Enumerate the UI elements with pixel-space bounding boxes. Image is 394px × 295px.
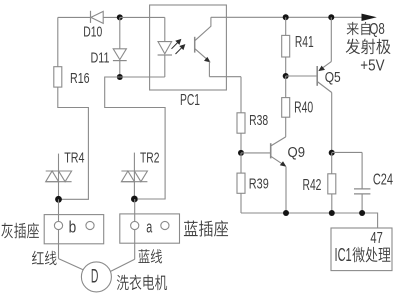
resistor R42	[328, 174, 336, 194]
svg-text:D11: D11	[91, 50, 110, 66]
node B junction (D11 cathode / PC1 LED cathode)	[117, 74, 123, 80]
wire Q5 emitter to node D	[330, 17, 332, 61]
wire node G to R39	[240, 153, 242, 173]
transistor Q5 (PNP)	[317, 62, 332, 93]
svg-text:R39: R39	[249, 175, 269, 192]
wire node A to PC1 LED anode	[120, 16, 165, 18]
svg-text:R38: R38	[249, 112, 268, 129]
svg-text:47: 47	[370, 230, 382, 247]
svg-text:D: D	[91, 267, 99, 288]
node A junction (top of D11)	[117, 14, 123, 20]
junction Q9 emitter on rail	[283, 210, 289, 216]
wire left drop to R16	[57, 17, 59, 66]
svg-text:TR4: TR4	[64, 150, 84, 166]
label 来自Q8	[347, 22, 359, 35]
svg-text:R16: R16	[70, 70, 90, 87]
PC1 phototransistor base bar	[194, 37, 196, 53]
wire node B to TR2 bottom (gate path)	[105, 77, 165, 199]
wire C24 to bottom rail	[361, 194, 363, 213]
svg-text:a: a	[146, 218, 152, 237]
resistor R38	[237, 113, 245, 133]
svg-text:R40: R40	[294, 100, 313, 117]
wire Q9 base lead	[241, 152, 271, 154]
transistor Q9 (NPN)	[271, 137, 287, 167]
svg-text:R41: R41	[295, 34, 314, 51]
wire blue lead to motor	[110, 259, 135, 272]
op-to-coupler PC1 box	[150, 5, 227, 90]
svg-text:Q8: Q8	[369, 21, 384, 38]
blue socket pin circle right	[161, 221, 169, 229]
IC1 box	[331, 228, 392, 271]
wire Q5 base lead	[286, 75, 318, 77]
PC1 LED light arrows	[172, 40, 185, 54]
svg-text:Q9: Q9	[288, 144, 306, 161]
wire TR4 to gray socket pin b	[58, 199, 60, 258]
svg-text:PC1: PC1	[180, 92, 200, 109]
node D junction (Q5 emitter)	[328, 14, 334, 20]
wire PC1 collector to +5V arrow	[211, 16, 362, 18]
resistor R39	[237, 173, 245, 193]
label 发射极	[346, 39, 360, 54]
wire TR2 to blue socket pin a	[134, 199, 136, 259]
blue socket pin circle left	[131, 221, 139, 229]
PC1 LED	[158, 42, 172, 55]
wire PC1 emitter to R38	[209, 76, 241, 78]
gray socket box	[44, 215, 103, 244]
wire R42 to bottom rail	[331, 194, 333, 213]
wire Q5 collector to node F	[331, 93, 333, 153]
resistor R40	[282, 98, 290, 118]
wire red lead to motor	[59, 259, 85, 271]
node F junction (Q5 collector/R42/C24)	[329, 150, 335, 156]
wire R40 top to node E	[285, 76, 287, 98]
blue socket box	[120, 214, 180, 243]
gray socket pin circle right	[86, 221, 94, 229]
wire D10 to node A	[103, 16, 120, 18]
diode D11	[113, 49, 127, 61]
resistor R16	[54, 67, 62, 87]
+5V supply arrow	[362, 14, 377, 21]
PC1 LED cathode wire to node B	[164, 55, 166, 77]
diode D10	[91, 11, 104, 24]
resistor R41	[282, 35, 290, 57]
junction C24 on rail	[359, 210, 365, 216]
wire top rail left (left corner to D10)	[58, 16, 91, 18]
triac TR2	[121, 153, 147, 199]
wire D11 top lead	[119, 17, 121, 48]
svg-text:Q5: Q5	[325, 69, 341, 86]
wire Q9 emitter to bottom rail	[285, 167, 287, 213]
wire node F to C24	[332, 151, 362, 153]
wire D11 bottom lead	[119, 61, 121, 77]
node I junction (TR2 bottom)	[131, 196, 138, 203]
wire bottom rail	[241, 213, 378, 228]
wire R38 to node G	[240, 133, 242, 153]
wire R41 to node E	[285, 57, 287, 76]
wire R39 to bottom rail	[240, 193, 242, 213]
svg-text:+5V: +5V	[360, 58, 385, 75]
node G junction (R38/R39/Q9 base)	[238, 150, 244, 156]
triac TR4	[46, 154, 72, 200]
label 洗衣电机	[117, 275, 129, 290]
gray socket pin circle left	[54, 221, 62, 229]
svg-text:D10: D10	[83, 25, 102, 41]
motor M circle	[81, 262, 111, 292]
svg-text:C24: C24	[373, 172, 393, 189]
junction R42 on rail	[329, 210, 335, 216]
label 红线	[32, 251, 44, 265]
node E junction (R41/R40/Q5 base)	[283, 73, 289, 79]
wire R16 to TR4 bottom node (detour)	[58, 87, 89, 199]
svg-text:IC1: IC1	[335, 244, 352, 265]
wire node C to R41	[285, 17, 287, 35]
PC1 phototransistor collector	[195, 17, 211, 41]
label 灰插座	[1, 223, 13, 239]
wire node F to R42	[331, 153, 333, 174]
svg-text:b: b	[69, 218, 77, 237]
label 蓝插座	[184, 221, 198, 237]
svg-text:R42: R42	[303, 177, 322, 194]
PC1 LED anode wire	[164, 17, 166, 41]
wire Q9 collector to R40	[285, 117, 287, 137]
capacitor C24	[354, 189, 370, 194]
node H junction (TR4 bottom)	[55, 196, 62, 203]
svg-text:TR2: TR2	[140, 151, 160, 167]
node C junction (R41 top)	[283, 14, 289, 20]
PC1 phototransistor emitter	[195, 49, 208, 61]
label 蓝线	[138, 249, 149, 263]
